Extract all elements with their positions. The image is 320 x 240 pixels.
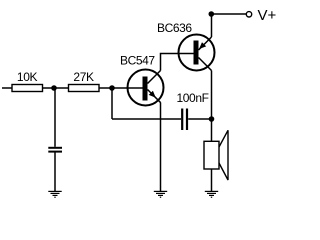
wire speaker to ground	[211, 169, 213, 191]
resistor R1 10K	[12, 85, 43, 92]
wire between R1 and R2	[43, 87, 69, 89]
svg-text:100nF: 100nF	[177, 91, 209, 105]
V+ terminal	[246, 12, 251, 17]
node B junction dot	[109, 85, 115, 91]
svg-text:V+: V+	[258, 7, 277, 24]
transistor Q2 BC636	[179, 35, 215, 71]
node V+ junction dot	[209, 11, 215, 17]
svg-text:27K: 27K	[73, 70, 94, 84]
node C junction dot	[209, 116, 215, 122]
ground G2	[154, 191, 167, 197]
capacitor C1	[48, 148, 62, 152]
svg-text:BC547: BC547	[120, 54, 155, 68]
svg-text:BC636: BC636	[157, 21, 192, 35]
node A junction dot	[51, 85, 57, 91]
wire Q1 emitter down to ground	[160, 103, 162, 191]
ground G1	[48, 191, 61, 197]
ground G3	[205, 191, 218, 197]
wire Q2 emitter up to V+	[211, 14, 213, 37]
resistor R2 27K	[69, 85, 100, 92]
wire node B down	[111, 88, 113, 119]
wire C1 to ground	[54, 152, 56, 191]
wire C2 to node C	[188, 118, 211, 120]
svg-text:10K: 10K	[17, 70, 38, 84]
wire Q1 collector up	[161, 54, 194, 71]
wire R2 to Q1 base	[99, 87, 143, 89]
transistor Q1 BC547	[128, 70, 164, 106]
speaker LS1	[204, 130, 228, 180]
capacitor C2 100nF	[182, 109, 187, 131]
wire feedback to C2	[112, 118, 181, 120]
wire V+ rail	[212, 13, 247, 15]
wire Q2 collector down	[211, 71, 213, 120]
wire node A down to C1	[54, 88, 56, 147]
wire node C down to speaker	[211, 119, 213, 141]
wire input left	[2, 87, 12, 89]
